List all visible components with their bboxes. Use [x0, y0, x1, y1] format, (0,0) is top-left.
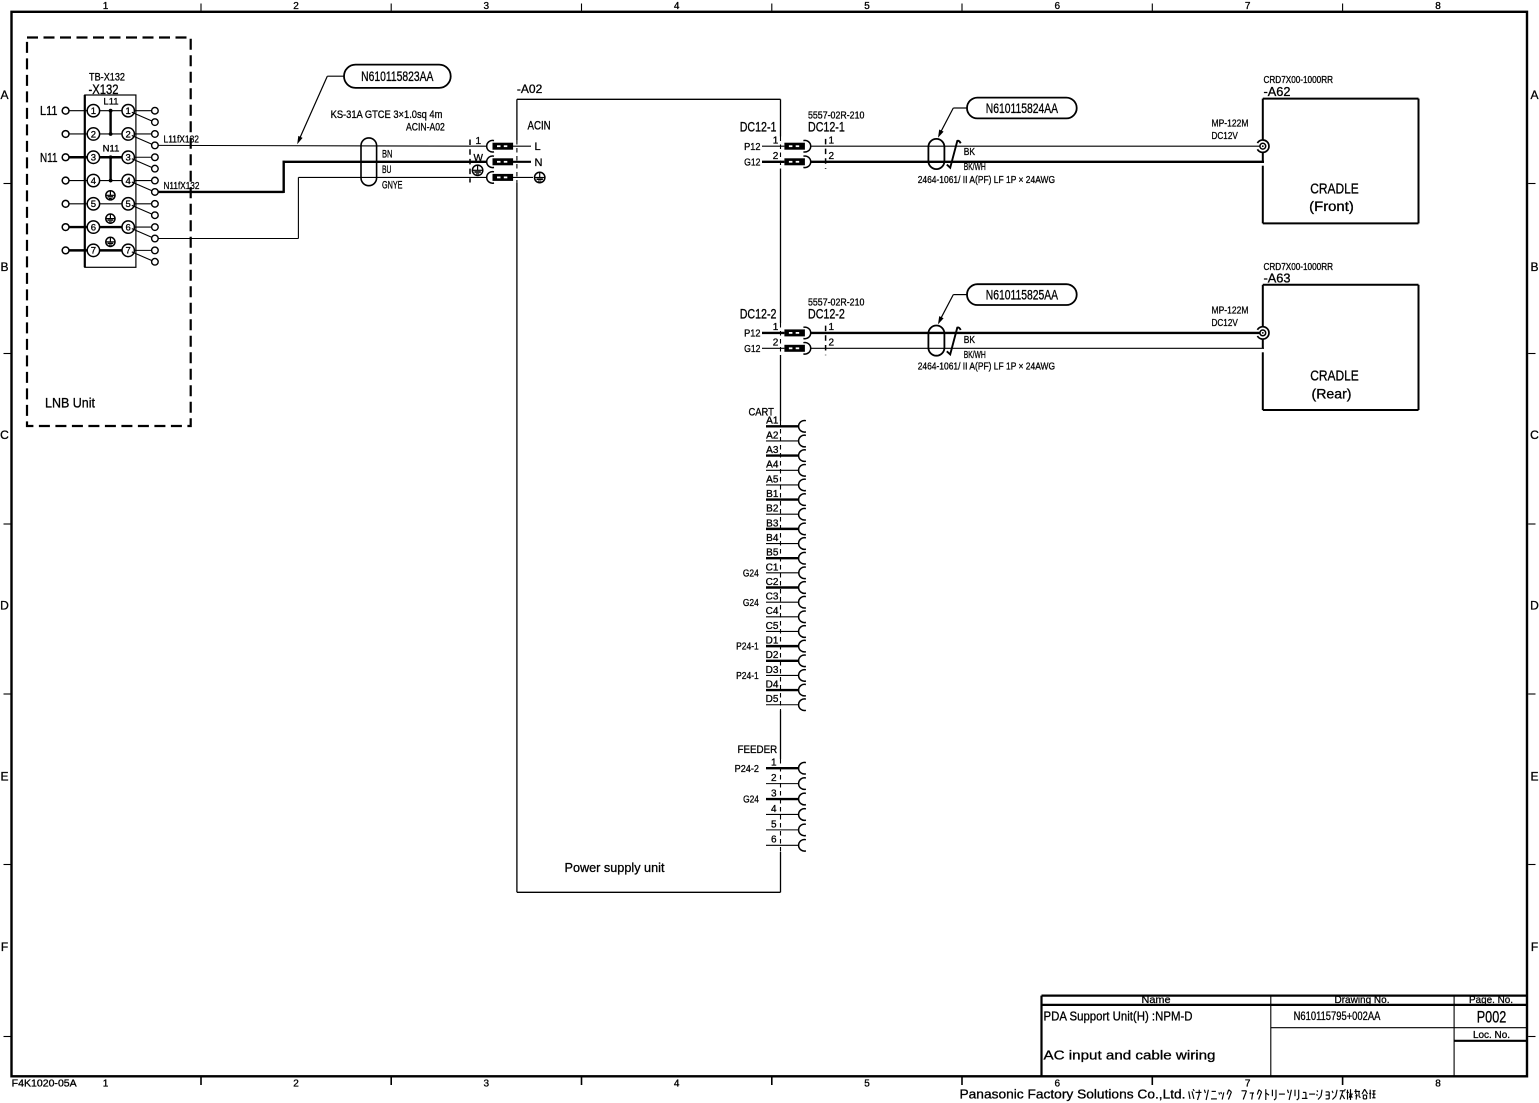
- cradle A62 part number CRD7X00-1000RR: [1264, 75, 1334, 86]
- svg-text:P24-1: P24-1: [736, 670, 759, 682]
- FEEDER pin 1: [735, 758, 806, 775]
- svg-text:6: 6: [91, 222, 96, 233]
- svg-text:8: 8: [1435, 1079, 1441, 1090]
- sheet title AC input and cable wiring: [1044, 1048, 1216, 1063]
- svg-text:N11: N11: [103, 143, 120, 154]
- svg-text:D: D: [0, 598, 9, 612]
- wire color BU: [382, 164, 392, 176]
- svg-text:A5: A5: [766, 474, 779, 485]
- terminal 3 right circle: [122, 151, 134, 164]
- cable spec 2464-1061 (DC12-1): [918, 174, 1055, 186]
- svg-text:(Front): (Front): [1309, 199, 1354, 214]
- svg-text:1: 1: [103, 1, 109, 12]
- connector DC12-2 title inside box: [740, 306, 777, 321]
- svg-text:L11: L11: [40, 103, 58, 118]
- svg-text:D4: D4: [766, 679, 779, 690]
- DC12-1 cable pin 1 number: [829, 135, 835, 146]
- wire DC12-1 pin1 BK to cradle A62: [811, 145, 1260, 147]
- DC12-1 pin 2 stub and contact: [762, 156, 811, 168]
- wire L11fX132 BN: [158, 144, 487, 147]
- LNB Unit label: [45, 396, 95, 411]
- DC12-1 pin 1 stub and contact: [762, 140, 811, 152]
- power supply unit -A02 box: [517, 99, 781, 892]
- coax jack A63: [1257, 327, 1269, 349]
- svg-text:2464-1061/ II A(PF) LF 1P × 24: 2464-1061/ II A(PF) LF 1P × 24AWG: [918, 174, 1055, 186]
- svg-text:-A63: -A63: [1264, 272, 1291, 286]
- DC12-1 cable pin 2 number: [829, 151, 835, 162]
- wire link terminal 2: [99, 133, 123, 135]
- svg-text:3: 3: [771, 788, 777, 799]
- svg-text:2: 2: [293, 1079, 299, 1090]
- svg-text:BN: BN: [382, 148, 393, 160]
- CART pin D3: [736, 665, 806, 682]
- svg-text:2: 2: [773, 338, 779, 349]
- CART pin A5: [766, 474, 806, 490]
- svg-text:3: 3: [91, 153, 96, 164]
- earth symbol above terminal 5: [106, 191, 115, 200]
- svg-text:4: 4: [674, 1, 680, 12]
- DC12-2 cable pin 1 number: [829, 322, 835, 333]
- wire color GNYE: [382, 179, 403, 191]
- svg-text:B4: B4: [766, 533, 779, 544]
- wire color BN: [382, 148, 393, 160]
- external terminal circle 6: [62, 224, 69, 231]
- cable label N610115824AA: [967, 98, 1077, 119]
- cable oval DC12-2: [928, 326, 944, 356]
- wire to external terminal 3: [69, 156, 88, 158]
- svg-text:FEEDER: FEEDER: [738, 744, 778, 756]
- svg-text:1: 1: [103, 1079, 109, 1090]
- wire color BK/WH (DC12-2): [964, 350, 986, 361]
- svg-text:(Rear): (Rear): [1312, 387, 1352, 402]
- Power supply unit label: [565, 860, 665, 875]
- fanout circles terminal 3: [152, 154, 159, 172]
- cable label N610115825AA: [967, 284, 1077, 305]
- connector FEEDER title: [738, 744, 778, 756]
- svg-text:5: 5: [864, 1079, 870, 1090]
- svg-text:C: C: [1530, 428, 1539, 442]
- grid column ticks bottom: [201, 1077, 1343, 1085]
- svg-text:N11fX132: N11fX132: [164, 180, 200, 192]
- leader arrow to cable DC12-2: [938, 295, 967, 325]
- svg-text:3: 3: [126, 153, 131, 164]
- svg-text:ACIN: ACIN: [528, 120, 551, 132]
- svg-text:N610115825AA: N610115825AA: [986, 288, 1058, 303]
- svg-text:C1: C1: [766, 562, 779, 573]
- svg-text:G24: G24: [743, 597, 759, 609]
- CART pin A1: [766, 416, 806, 432]
- wire link terminal 4: [99, 180, 123, 182]
- cable spec 2464-1061 (DC12-2): [918, 361, 1055, 373]
- terminal 7 right circle: [122, 244, 134, 256]
- fanout wires terminal 7: [132, 250, 153, 261]
- svg-text:B1: B1: [766, 489, 779, 500]
- terminal block TB-X132 label: [89, 72, 126, 98]
- svg-text:7: 7: [1245, 1, 1251, 12]
- ACIN contact L: [487, 140, 513, 152]
- svg-text:5: 5: [864, 1, 870, 12]
- external terminal circle 3: [62, 154, 69, 161]
- company name: [960, 1087, 1376, 1102]
- Loc. No. header: [1473, 1029, 1510, 1041]
- DC12-2 P12 label: [744, 328, 761, 340]
- terminal 5 right circle: [122, 198, 134, 210]
- label N11fX132: [164, 180, 200, 192]
- title block header Drawing No.: [1335, 994, 1390, 1006]
- DC12-2 cable pin 2 number: [829, 338, 835, 349]
- svg-text:P12: P12: [744, 328, 761, 340]
- DC12-2 pin 1 number inside: [773, 322, 779, 333]
- svg-text:8: 8: [1435, 1, 1441, 12]
- terminal 7 left circle: [87, 244, 99, 256]
- svg-text:C2: C2: [766, 577, 779, 588]
- connector DC12-1 part number: [808, 110, 865, 122]
- fanout circles terminal 1: [152, 107, 159, 125]
- wire to external terminal 6: [69, 226, 88, 228]
- svg-text:4: 4: [126, 176, 131, 187]
- svg-text:N610115824AA: N610115824AA: [986, 101, 1058, 116]
- CART pin C2: [766, 577, 806, 593]
- svg-text:W: W: [474, 153, 484, 164]
- svg-text:C3: C3: [766, 592, 779, 603]
- ACIN pin W label: [474, 153, 484, 164]
- fanout wires terminal 6: [132, 227, 153, 238]
- ACIN pin PE symbol cable side: [472, 165, 482, 175]
- fanout circles terminal 6: [152, 224, 159, 242]
- svg-text:A3: A3: [766, 445, 779, 456]
- terminal 1 left circle: [87, 105, 99, 118]
- CRADLE (Rear) label: [1310, 368, 1359, 402]
- svg-text:Drawing No.: Drawing No.: [1335, 994, 1390, 1006]
- DC12-2 pin 1 stub and contact: [762, 327, 811, 339]
- DC12-1 pin 2 number inside: [773, 151, 779, 162]
- CART pin B4: [766, 533, 806, 549]
- svg-text:6: 6: [126, 222, 131, 233]
- twist mark DC12-2: [947, 327, 961, 354]
- terminal 6 left circle: [87, 221, 99, 233]
- wire link terminal 3: [99, 156, 123, 158]
- CART pin D5: [766, 694, 806, 710]
- svg-text:P24-1: P24-1: [736, 641, 759, 653]
- grid column ticks top: [201, 4, 1343, 11]
- designator -A63: [1264, 272, 1291, 286]
- CART pin A3: [766, 445, 806, 461]
- wire link terminal 6: [99, 226, 123, 228]
- format number F4K1020-05A: [12, 1078, 77, 1089]
- svg-text:2: 2: [829, 338, 835, 349]
- svg-text:DC12V: DC12V: [1212, 130, 1238, 142]
- wire to external terminal 2: [69, 133, 88, 135]
- fanout wires terminal 2: [132, 134, 153, 145]
- svg-text:CRADLE: CRADLE: [1310, 180, 1359, 197]
- fanout circles terminal 7: [152, 247, 159, 265]
- connector DC12-1 cable half title: [808, 120, 845, 135]
- label L11fX132: [164, 134, 200, 146]
- svg-text:P24-2: P24-2: [735, 763, 760, 775]
- jumper L11 terminals 1-2: [103, 97, 118, 136]
- CART pin A4: [766, 460, 806, 476]
- grid column numbers bottom: [103, 1079, 1442, 1090]
- cable oval DC12-1: [928, 139, 944, 169]
- svg-text:BK: BK: [964, 147, 976, 158]
- node L11: [40, 103, 58, 118]
- FEEDER pin 4: [766, 804, 806, 820]
- svg-text:1: 1: [126, 106, 131, 117]
- svg-text:3: 3: [484, 1, 490, 12]
- svg-text:MP-122M: MP-122M: [1212, 305, 1249, 317]
- svg-text:7: 7: [91, 246, 96, 257]
- DC12-1 P12 label: [744, 141, 761, 153]
- svg-text:B5: B5: [766, 548, 779, 559]
- svg-text:5: 5: [126, 199, 131, 210]
- terminal 5 left circle: [87, 198, 99, 210]
- svg-text:5: 5: [91, 199, 96, 210]
- ACIN pin L internal: [513, 141, 541, 153]
- svg-text:D1: D1: [766, 636, 779, 647]
- wire DC12-2 pin2 BK/WH to cradle A63: [811, 347, 1264, 349]
- svg-text:A2: A2: [766, 430, 779, 441]
- cradle A63 part number CRD7X00-1000RR: [1264, 262, 1334, 273]
- svg-text:B: B: [0, 260, 8, 274]
- DC12-2 pin 2 stub and contact: [762, 343, 811, 355]
- connector CART title: [749, 406, 775, 418]
- terminal 4 left circle: [87, 174, 99, 187]
- svg-text:N11: N11: [40, 150, 58, 165]
- svg-text:1: 1: [773, 135, 779, 146]
- svg-text:2: 2: [91, 129, 96, 140]
- cable oval ACIN-A02: [361, 138, 377, 186]
- svg-text:Page. No.: Page. No.: [1469, 994, 1513, 1006]
- svg-text:ACIN-A02: ACIN-A02: [406, 121, 445, 133]
- svg-text:1: 1: [476, 136, 482, 147]
- CART pin C1: [743, 562, 806, 579]
- wire to external terminal 5: [69, 203, 88, 205]
- svg-text:1: 1: [771, 758, 777, 769]
- svg-text:C: C: [0, 428, 9, 442]
- svg-text:LNB Unit: LNB Unit: [45, 396, 95, 411]
- svg-text:2: 2: [126, 129, 131, 140]
- title block: [1042, 996, 1528, 1077]
- svg-text:P12: P12: [744, 141, 761, 153]
- DC12-2 cable mating line: [825, 326, 827, 356]
- svg-text:DC12-1: DC12-1: [808, 120, 845, 135]
- terminal 6 right circle: [122, 221, 134, 233]
- cable name ACIN-A02: [406, 121, 445, 133]
- cable spec KS-31A GTCE: [331, 109, 443, 121]
- title name PDA Support Unit: [1044, 1009, 1193, 1024]
- wire to external terminal 4: [69, 180, 88, 182]
- svg-text:D5: D5: [766, 694, 779, 705]
- svg-text:N610115823AA: N610115823AA: [361, 69, 433, 84]
- terminal 3 left circle: [87, 151, 99, 164]
- svg-text:L11: L11: [103, 97, 118, 108]
- CART pin B2: [766, 504, 806, 520]
- terminal 1 right circle: [122, 105, 134, 118]
- svg-text:BK: BK: [964, 335, 976, 346]
- terminal 4 right circle: [122, 174, 134, 187]
- connector DC12-2 part number: [808, 296, 865, 308]
- wire color BK (DC12-1): [964, 147, 976, 158]
- grid row ticks right: [1528, 184, 1535, 1037]
- svg-text:MP-122M: MP-122M: [1212, 118, 1249, 130]
- title block header Page. No.: [1469, 994, 1513, 1006]
- external terminal circle 2: [62, 131, 69, 138]
- external terminal circle 1: [62, 107, 69, 114]
- DC12-2 pin 2 number inside: [773, 338, 779, 349]
- svg-text:L11fX132: L11fX132: [164, 134, 200, 146]
- ACIN contact PE: [487, 172, 513, 184]
- svg-text:D3: D3: [766, 665, 779, 676]
- svg-text:B: B: [1530, 260, 1538, 274]
- CART pin B5: [766, 548, 806, 564]
- leader arrow to cable DC12-1: [938, 108, 967, 138]
- svg-text:4: 4: [674, 1079, 680, 1090]
- CART pin D2: [766, 650, 806, 666]
- coax jack A62: [1257, 140, 1269, 162]
- ACIN pin 1 label: [476, 136, 482, 147]
- title block header Name: [1142, 994, 1171, 1006]
- svg-text:BK/WH: BK/WH: [964, 350, 986, 361]
- cradle A62 box: [1263, 99, 1419, 224]
- CRADLE (Front) label: [1309, 180, 1359, 214]
- svg-text:G24: G24: [743, 794, 759, 806]
- svg-text:4: 4: [91, 176, 96, 187]
- grid row letters right: [1530, 88, 1539, 954]
- svg-text:E: E: [1530, 769, 1538, 783]
- svg-text:G24: G24: [743, 567, 759, 579]
- svg-text:F: F: [1, 940, 8, 954]
- svg-text:DC12-1: DC12-1: [740, 120, 777, 135]
- svg-text:BK/WH: BK/WH: [964, 162, 986, 173]
- svg-text:AC input and cable wiring: AC input and cable wiring: [1044, 1048, 1216, 1063]
- svg-text:2: 2: [773, 151, 779, 162]
- designator -A02: [517, 82, 543, 96]
- DC12-2 G12 label: [744, 343, 761, 355]
- node N11: [40, 150, 58, 165]
- svg-text:1: 1: [91, 106, 96, 117]
- fanout wires terminal 1: [132, 111, 153, 122]
- svg-text:KS-31A GTCE 3×1.0sq 4m: KS-31A GTCE 3×1.0sq 4m: [331, 109, 443, 121]
- fanout circles terminal 4: [152, 177, 159, 195]
- svg-text:A: A: [1530, 88, 1538, 102]
- CART pin D1: [736, 636, 806, 653]
- wire N11fX132 BU: [158, 161, 487, 193]
- svg-text:N610115795+002AA: N610115795+002AA: [1294, 1009, 1381, 1023]
- ACIN contact N: [487, 156, 513, 168]
- svg-text:A1: A1: [766, 416, 779, 427]
- wire to external terminal 7: [69, 249, 88, 251]
- connector ACIN mating line: [469, 140, 471, 183]
- svg-text:B2: B2: [766, 504, 779, 515]
- svg-text:CRADLE: CRADLE: [1310, 368, 1359, 385]
- svg-text:A: A: [0, 88, 8, 102]
- connector ACIN title: [528, 120, 551, 132]
- svg-text:DC12V: DC12V: [1212, 317, 1238, 329]
- grid row letters left: [0, 88, 9, 954]
- svg-text:A4: A4: [766, 460, 779, 471]
- svg-text:N: N: [535, 157, 543, 169]
- svg-text:P002: P002: [1477, 1009, 1507, 1027]
- DC12-1 pin 1 number inside: [773, 135, 779, 146]
- fanout wires terminal 5: [132, 204, 153, 215]
- FEEDER pin 5: [766, 819, 806, 835]
- svg-text:PDA Support Unit(H) :NPM-D: PDA Support Unit(H) :NPM-D: [1044, 1009, 1193, 1024]
- grid column numbers top: [103, 1, 1442, 12]
- svg-text:6: 6: [1055, 1, 1061, 12]
- fanout wires terminal 4: [132, 181, 153, 192]
- ACIN pin PE internal: [513, 172, 545, 182]
- wire color BK (DC12-2): [964, 335, 976, 346]
- svg-text:F4K1020-05A: F4K1020-05A: [12, 1078, 77, 1089]
- cradle A63 box: [1263, 285, 1419, 410]
- svg-text:5: 5: [771, 819, 777, 830]
- svg-text:4: 4: [771, 804, 777, 815]
- FEEDER pin 2: [766, 773, 806, 789]
- connector DC12-2 cable half title: [808, 306, 845, 321]
- wire DC12-1 pin2 BK/WH to cradle A62: [811, 161, 1264, 163]
- wire link terminal 7: [99, 249, 123, 251]
- wire DC12-2 pin1 BK to cradle A63: [811, 332, 1260, 334]
- svg-text:Power supply unit: Power supply unit: [565, 860, 665, 875]
- CART pin D4: [766, 679, 806, 695]
- twist mark DC12-1: [947, 141, 961, 168]
- page number P002: [1477, 1009, 1507, 1027]
- svg-text:Loc. No.: Loc. No.: [1473, 1029, 1510, 1041]
- svg-text:7: 7: [1245, 1079, 1251, 1090]
- svg-text:1: 1: [829, 135, 835, 146]
- external terminal circle 4: [62, 177, 69, 184]
- earth symbol above terminal 7: [106, 237, 115, 246]
- drawing number N610115795+002AA: [1294, 1009, 1381, 1023]
- fanout circles terminal 2: [152, 131, 159, 149]
- LNB Unit enclosure dashed box: [27, 38, 191, 427]
- svg-text:2: 2: [771, 773, 777, 784]
- cable label N610115823AA: [344, 65, 451, 88]
- svg-text:2: 2: [293, 1, 299, 12]
- wire link terminal 1: [99, 110, 123, 112]
- svg-text:2464-1061/ II A(PF) LF 1P × 24: 2464-1061/ II A(PF) LF 1P × 24AWG: [918, 361, 1055, 373]
- jumper N11 terminals 3-4: [103, 143, 120, 182]
- svg-text:GNYE: GNYE: [382, 179, 403, 191]
- cradle A63 connector labels MP-122M DC12V: [1212, 305, 1249, 329]
- svg-text:1: 1: [773, 322, 779, 333]
- svg-text:-A62: -A62: [1264, 85, 1291, 99]
- earth symbol above terminal 6: [106, 214, 115, 223]
- svg-text:L: L: [535, 141, 541, 153]
- svg-text:B3: B3: [766, 518, 779, 529]
- svg-text:G12: G12: [744, 343, 761, 355]
- svg-text:G12: G12: [744, 156, 761, 168]
- svg-text:C4: C4: [766, 606, 779, 617]
- wire color BK/WH (DC12-1): [964, 162, 986, 173]
- FEEDER pin 6: [766, 835, 806, 851]
- svg-text:DC12-2: DC12-2: [808, 306, 845, 321]
- leader arrow to ACIN cable: [297, 76, 344, 144]
- wire GNYE earth: [158, 177, 487, 238]
- CART pin A2: [766, 430, 806, 446]
- DC12-1 cable mating line: [825, 139, 827, 169]
- svg-text:Name: Name: [1142, 994, 1171, 1006]
- fanout wires terminal 3: [132, 157, 153, 168]
- connector DC12-1 title inside box: [740, 120, 777, 135]
- svg-text:3: 3: [484, 1079, 490, 1090]
- wire to external terminal 1: [69, 110, 88, 112]
- svg-text:1: 1: [829, 322, 835, 333]
- svg-text:-A02: -A02: [517, 82, 543, 96]
- FEEDER pin 3: [743, 788, 806, 805]
- svg-text:7: 7: [126, 246, 131, 257]
- svg-text:2: 2: [829, 151, 835, 162]
